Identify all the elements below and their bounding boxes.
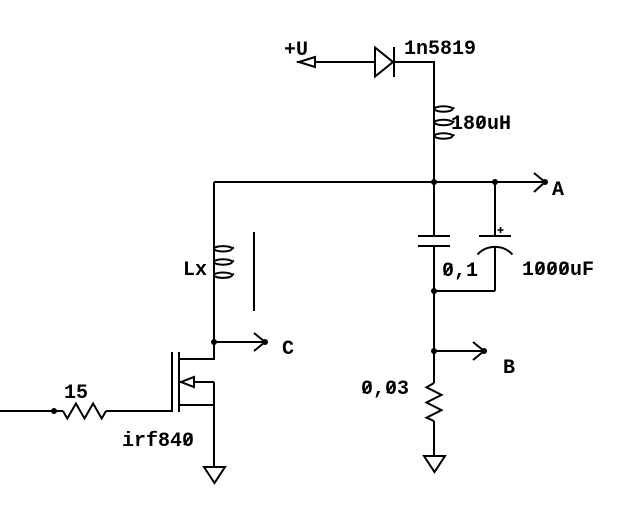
node A: [534, 173, 564, 202]
svg-text:+U: +U: [284, 39, 308, 62]
junction bus/L1: [431, 179, 437, 185]
wire junction to node B: [433, 291, 435, 351]
svg-text:C: C: [282, 338, 294, 361]
wire input to R1: [0, 410, 63, 412]
ground at R2: [424, 456, 445, 472]
svg-text:15: 15: [64, 382, 88, 405]
ground at Q1 source: [204, 467, 225, 483]
diode D1: [375, 47, 394, 77]
wire bus to C2: [494, 182, 496, 236]
wire bus to Lx: [213, 182, 215, 342]
wire R2 to ground: [433, 421, 435, 456]
wire bus (node A rail): [214, 181, 545, 183]
wire R1 to Q1 gate: [106, 410, 172, 412]
junction bus/C2: [492, 179, 498, 185]
junction C1/C2: [431, 288, 437, 294]
svg-text:1000uF: 1000uF: [522, 259, 594, 282]
capacitor C1: [418, 236, 450, 246]
wire node B to R2: [433, 351, 435, 383]
wire +U to D1 anode: [315, 61, 374, 63]
node C: [214, 333, 294, 361]
transistor Q1: [172, 352, 214, 467]
junction node C: [211, 339, 217, 345]
wire C1 to junction: [433, 246, 435, 291]
svg-text:B: B: [503, 357, 515, 380]
wire node C to Q1 drain: [179, 342, 214, 359]
core bar: [253, 232, 255, 311]
inductor L1: [434, 104, 455, 182]
svg-text:1n5819: 1n5819: [404, 38, 476, 61]
capacitor C2: [478, 227, 513, 291]
node +U: [284, 39, 316, 67]
svg-text:Lx: Lx: [183, 259, 207, 282]
resistor R2: [427, 383, 442, 421]
wire D1 cathode to L1: [394, 62, 434, 104]
wire bus to C1: [433, 182, 435, 236]
svg-text:A: A: [552, 179, 564, 202]
inductor Lx: [214, 246, 234, 278]
node B: [434, 342, 515, 380]
wire C2 to junction: [434, 290, 495, 292]
resistor R1: [63, 404, 106, 419]
junction on gate wire: [51, 408, 57, 414]
svg-text:180uH: 180uH: [451, 113, 511, 136]
svg-text:0,03: 0,03: [361, 378, 409, 401]
junction node B: [431, 348, 437, 354]
svg-text:irf840: irf840: [122, 430, 194, 453]
